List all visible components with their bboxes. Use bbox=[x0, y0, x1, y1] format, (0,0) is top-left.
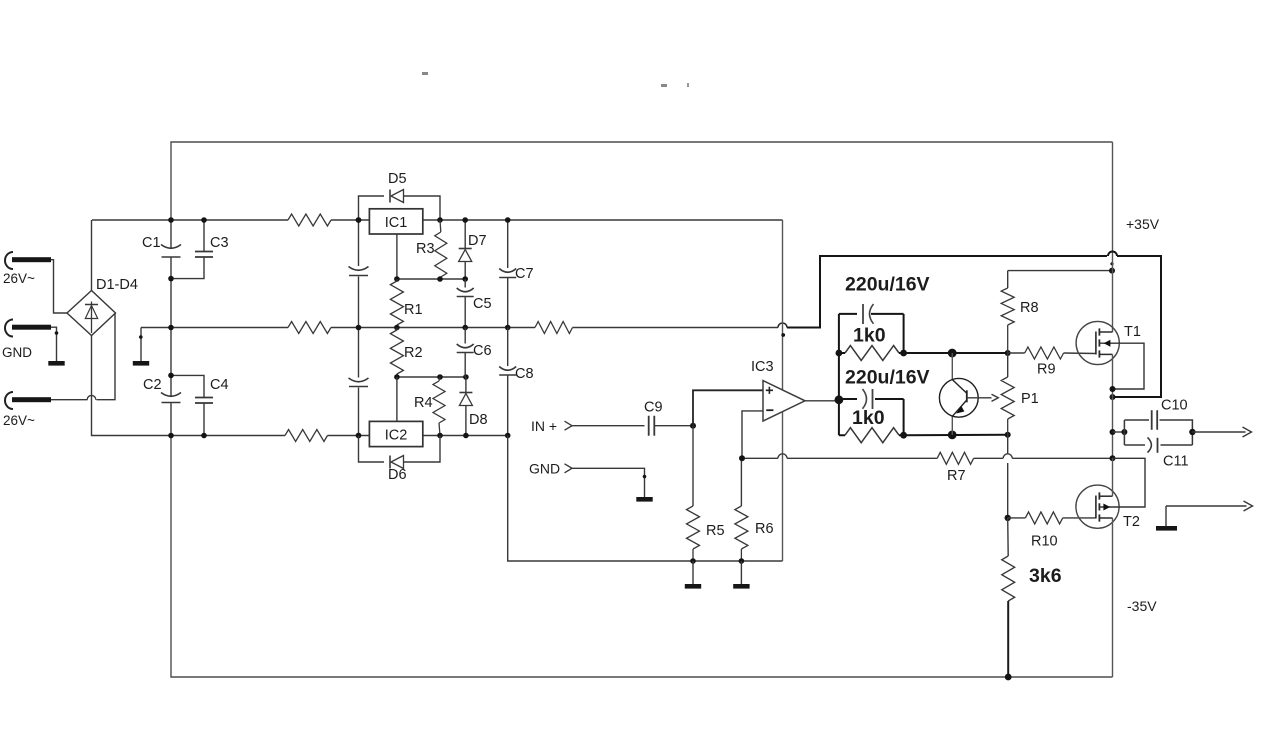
wire R7 line mid bbox=[787, 457, 937, 459]
ground symbol mid rail bbox=[133, 361, 149, 366]
wire IC2 adj line y377 bbox=[397, 376, 466, 378]
capacitor C7 branch bbox=[507, 220, 509, 328]
capacitor C2 bbox=[161, 393, 181, 397]
transistor Q1 emitter arrow bbox=[956, 406, 964, 414]
resistor R4 bbox=[439, 377, 440, 381]
diode D8 bbox=[459, 392, 472, 394]
node adj-R1 bbox=[394, 276, 400, 282]
node D8 bottom bbox=[463, 433, 469, 439]
wire lower branch left vertical bbox=[838, 400, 840, 436]
speck 1 bbox=[422, 72, 428, 75]
resistor R3 bbox=[439, 220, 442, 232]
node adj2-D8 bbox=[463, 374, 469, 380]
potentiometer P1 bbox=[1007, 353, 1009, 377]
svg-text:C7: C7 bbox=[515, 266, 534, 282]
node R5 bottom bbox=[690, 558, 696, 564]
svg-text:GND: GND bbox=[529, 461, 560, 477]
node IC3 output junction bbox=[835, 395, 844, 404]
transistor Q1 collector diagonal bbox=[953, 380, 967, 394]
resistor 1k0 upper bbox=[845, 346, 899, 361]
resistor 3k6 bbox=[1007, 518, 1010, 556]
svg-text:GND: GND bbox=[2, 345, 32, 360]
wire speaker return arrow bbox=[1166, 505, 1247, 507]
node C3 top bbox=[201, 217, 207, 223]
wire lower node line bbox=[904, 434, 1008, 436]
resistor series mid rail left bbox=[288, 322, 331, 334]
capacitor C4 branch bbox=[171, 375, 204, 435]
node bypass bottom bbox=[356, 433, 362, 439]
svg-text:+35V: +35V bbox=[1126, 216, 1160, 232]
svg-text:220u/16V: 220u/16V bbox=[845, 274, 930, 296]
node R6 bottom bbox=[739, 558, 745, 564]
svg-text:C6: C6 bbox=[473, 343, 492, 359]
wire upper node line bbox=[904, 352, 1008, 354]
svg-text:3k6: 3k6 bbox=[1029, 565, 1062, 587]
connector J3 26V~ bottom bbox=[5, 392, 13, 409]
svg-text:P1: P1 bbox=[1021, 391, 1039, 407]
mosfet T1 body wire bbox=[1099, 343, 1144, 389]
mosfet T1 source bbox=[1099, 353, 1112, 355]
node C7 top bbox=[505, 217, 511, 223]
node Q1 emitter junction bbox=[948, 431, 957, 440]
node IC2 input bbox=[356, 433, 362, 439]
mosfet T1 body arrow bbox=[1104, 340, 1111, 347]
svg-text:220u/16V: 220u/16V bbox=[845, 367, 930, 389]
diode D5 bypass loop bbox=[359, 196, 441, 220]
node C2-C4 branch bbox=[168, 373, 174, 379]
capacitor C10 bbox=[1124, 420, 1192, 445]
diode D7 branch bbox=[464, 220, 466, 279]
node C8 bottom bbox=[505, 433, 511, 439]
capacitor C1 bbox=[161, 245, 181, 249]
connector J2 GND bbox=[5, 320, 13, 337]
node C4 bottom bbox=[201, 433, 207, 439]
resistor series mid rail right bbox=[535, 322, 573, 334]
node R8 top bbox=[1109, 268, 1115, 274]
resistor R5 bbox=[692, 426, 694, 506]
svg-text:R7: R7 bbox=[947, 468, 966, 484]
svg-text:D5: D5 bbox=[388, 171, 407, 187]
svg-text:C8: C8 bbox=[515, 366, 534, 382]
node P1 bottom bbox=[1005, 432, 1011, 438]
svg-text:R3: R3 bbox=[416, 241, 435, 257]
capacitor bypass lower bbox=[349, 378, 369, 382]
hop R7 over supply line bbox=[778, 454, 787, 459]
mosfet T2 source bbox=[1099, 517, 1112, 519]
svg-text:C5: C5 bbox=[473, 296, 492, 312]
wire T2 source to -35V bbox=[1112, 518, 1114, 677]
mosfet T1 circle bbox=[1076, 321, 1119, 364]
label IC3 plus input bbox=[766, 387, 773, 394]
hop T1 loop over rail bbox=[1108, 252, 1117, 257]
resistor R2 bbox=[390, 330, 403, 374]
capacitor 220u/16V lower bbox=[839, 398, 857, 400]
wire IC3 negative return bbox=[508, 436, 783, 562]
wire R7 line right bbox=[974, 457, 1004, 459]
tick above R8 node bbox=[1110, 262, 1113, 265]
diode D8 branch bbox=[465, 377, 467, 436]
wire mid rail to T1 loop corner bbox=[787, 256, 1107, 328]
connector J1 26V~ top bbox=[5, 252, 13, 269]
op-amp IC3 triangle bbox=[763, 381, 805, 421]
node R2-adj2 bbox=[394, 374, 400, 380]
wire IC1 adj line y279 bbox=[397, 278, 465, 280]
mosfet T2 body arrow bbox=[1103, 504, 1110, 511]
svg-text:IC1: IC1 bbox=[385, 215, 408, 231]
diode D5 bbox=[389, 190, 391, 203]
hop R7 over P1 column bbox=[1003, 454, 1012, 459]
mosfet T1 gate plate bbox=[1095, 332, 1097, 355]
wire T1 source to output bbox=[1112, 354, 1114, 458]
node C1-C2 mid bbox=[168, 325, 174, 331]
resistor series bottom rail bbox=[285, 430, 328, 442]
wire output arrow bbox=[1192, 431, 1245, 433]
capacitor C5 branch bbox=[464, 279, 466, 328]
svg-text:C10: C10 bbox=[1161, 398, 1188, 414]
wire Q1 collector bbox=[951, 353, 953, 380]
wire C1 column bbox=[170, 220, 172, 436]
node bypass mid bbox=[356, 325, 362, 331]
node adj-D7 bbox=[462, 276, 468, 282]
wire Q1 emitter bbox=[951, 416, 953, 435]
label IC3 minus input bbox=[766, 409, 773, 411]
wire IN to C9 bbox=[572, 425, 645, 427]
capacitor C8 branch bbox=[507, 328, 509, 436]
capacitor C11 bbox=[1124, 444, 1192, 446]
mosfet T2 drain bbox=[1099, 495, 1112, 497]
svg-text:D1-D4: D1-D4 bbox=[96, 277, 138, 293]
svg-text:1k0: 1k0 bbox=[852, 407, 885, 429]
wire +35V rail upper bbox=[1112, 142, 1114, 332]
wire Q1 base to P1 wiper bbox=[967, 397, 992, 399]
wire R7 line left bbox=[742, 457, 778, 459]
resistor series top rail bbox=[288, 214, 331, 226]
node D7 top bbox=[462, 217, 468, 223]
node C2 bottom bbox=[168, 433, 174, 439]
svg-text:IN +: IN + bbox=[531, 418, 557, 434]
wire P1 to R10 junction bbox=[1007, 435, 1009, 518]
speck 2 bbox=[661, 84, 667, 87]
svg-text:R9: R9 bbox=[1037, 362, 1056, 378]
svg-text:D7: D7 bbox=[468, 233, 487, 249]
ground stub R5 bbox=[692, 561, 694, 584]
svg-text:D6: D6 bbox=[388, 467, 407, 483]
mosfet T2 body wire bbox=[1099, 458, 1145, 507]
node adj-R3 bbox=[437, 276, 443, 282]
svg-text:T2: T2 bbox=[1123, 514, 1140, 530]
wire J1 to bridge bbox=[51, 260, 67, 313]
resistor R7 bbox=[937, 452, 973, 464]
svg-text:D8: D8 bbox=[469, 412, 488, 428]
svg-text:T1: T1 bbox=[1124, 324, 1141, 340]
transistor Q1 emitter diagonal bbox=[953, 400, 967, 416]
wire inverting input bbox=[742, 411, 763, 458]
wire IC3 supply vertical bbox=[782, 220, 784, 561]
bridge rectifier D1-D4 diamond bbox=[67, 291, 116, 336]
node Q1 collector bbox=[948, 349, 957, 358]
svg-text:R1: R1 bbox=[404, 302, 423, 318]
capacitor bypass upper bbox=[349, 267, 369, 271]
wire C9 to node bbox=[654, 425, 693, 427]
wire IC3 output bbox=[805, 400, 839, 402]
node C1 top bbox=[168, 217, 174, 223]
wire upper branch left vertical bbox=[838, 314, 840, 400]
svg-text:C3: C3 bbox=[210, 235, 229, 251]
mosfet T1 drain bbox=[1099, 331, 1112, 333]
ground stub R6 bbox=[740, 561, 742, 584]
capacitor C9 bbox=[649, 416, 655, 436]
capacitor C10 C11 loop wire bbox=[1113, 431, 1125, 433]
ground symbol input bbox=[636, 497, 652, 502]
svg-text:C9: C9 bbox=[644, 400, 663, 416]
resistor R6 bbox=[740, 458, 742, 506]
svg-text:R5: R5 bbox=[706, 523, 725, 539]
ground stub speaker return bbox=[1165, 506, 1167, 526]
regulator IC2 box bbox=[369, 421, 422, 446]
node on mid rail ground stub bbox=[139, 335, 143, 339]
node IN bbox=[690, 423, 696, 429]
node IC2 output bbox=[437, 433, 443, 439]
node C7 bottom bbox=[505, 325, 511, 331]
node T1 loop bbox=[1110, 394, 1116, 400]
wire lower branch right vertical bbox=[903, 399, 905, 435]
node adj2-R4 bbox=[437, 374, 443, 380]
wire to noninverting input bbox=[693, 390, 763, 425]
capacitor C3 branch bbox=[171, 220, 204, 279]
wire J2 to ground bbox=[51, 327, 57, 361]
diode D6 bbox=[389, 456, 391, 469]
svg-text:C4: C4 bbox=[210, 377, 229, 393]
node on GND drop bbox=[55, 331, 59, 335]
wire J3 to bridge right corner bbox=[51, 399, 88, 401]
wire T2 drain to output node bbox=[1112, 458, 1114, 496]
node on IC3 supply line bbox=[781, 333, 785, 337]
node on GND stub bbox=[643, 475, 647, 479]
wire bridge plus output up bbox=[91, 220, 93, 291]
node 3k6 bottom bbox=[1005, 674, 1012, 681]
ground stub mid rail bbox=[140, 328, 142, 362]
svg-text:R10: R10 bbox=[1031, 534, 1058, 550]
node 1k0 upper right bbox=[900, 350, 907, 357]
connector IN+ bbox=[565, 421, 573, 430]
node R6-R7 feedback bbox=[739, 455, 745, 461]
wire bridge minus output down and right bbox=[92, 336, 172, 436]
resistor R9 bbox=[1025, 347, 1064, 359]
svg-text:1k0: 1k0 bbox=[853, 325, 886, 347]
node output-R7 bbox=[1110, 455, 1116, 461]
wire negative rail y435.5 bbox=[171, 435, 508, 437]
resistor R1 bbox=[390, 281, 403, 325]
resistor R8 bbox=[1008, 270, 1112, 272]
P1 wiper arrowhead bbox=[992, 394, 999, 401]
node R1 bottom bbox=[394, 325, 400, 331]
svg-text:C11: C11 bbox=[1163, 454, 1189, 470]
node C10 right bbox=[1189, 429, 1195, 435]
node output-C10 bbox=[1110, 429, 1116, 435]
outer border frame top/left/bottom bbox=[171, 142, 1113, 677]
svg-text:C1: C1 bbox=[142, 235, 161, 251]
svg-text:IC2: IC2 bbox=[385, 428, 408, 444]
wire bypass column x358.5 bbox=[358, 220, 360, 436]
connector GND in bbox=[565, 464, 573, 473]
transistor Q1 base bar bbox=[966, 390, 968, 402]
wire GND to ground bbox=[572, 468, 645, 497]
capacitor C6 branch bbox=[464, 328, 466, 378]
mosfet T2 gate plate bbox=[1095, 496, 1097, 519]
svg-text:R6: R6 bbox=[755, 521, 774, 537]
wire IC2 adj pin bbox=[396, 377, 398, 421]
node C10 left bbox=[1121, 429, 1127, 435]
diode D6 bypass loop bbox=[359, 436, 441, 463]
node IC1 output bbox=[437, 217, 443, 223]
hop mid rail over IC3 supply line bbox=[778, 323, 787, 328]
wire upper branch right vertical bbox=[903, 314, 905, 353]
node IC1 input bbox=[356, 217, 362, 223]
svg-text:26V~: 26V~ bbox=[3, 413, 35, 428]
svg-text:C2: C2 bbox=[143, 377, 162, 393]
node bypass top bbox=[356, 217, 362, 223]
resistor 1k0 lower bbox=[845, 428, 899, 443]
svg-text:IC3: IC3 bbox=[751, 359, 774, 375]
svg-text:R4: R4 bbox=[414, 395, 433, 411]
node 1k0 upper left bbox=[836, 350, 843, 357]
ground symbol for J2 bbox=[48, 361, 64, 366]
capacitor 220u/16V upper bbox=[839, 313, 857, 315]
transistor Q1 circle bbox=[939, 378, 978, 417]
mosfet T1 channel dashes bbox=[1098, 328, 1100, 357]
node C1-C3 join bbox=[168, 276, 174, 282]
svg-text:R2: R2 bbox=[404, 345, 423, 361]
node T1 source bbox=[1110, 386, 1116, 392]
node P1 top bbox=[1005, 350, 1011, 356]
svg-text:R8: R8 bbox=[1020, 300, 1039, 316]
wire R7 to output rail bbox=[1012, 457, 1112, 459]
node C5 bottom bbox=[462, 325, 468, 331]
mosfet T2 channel dashes bbox=[1098, 492, 1100, 521]
regulator IC1 box bbox=[369, 209, 422, 234]
mosfet T2 circle bbox=[1076, 485, 1119, 528]
bridge internal diode bbox=[91, 302, 93, 334]
svg-text:-35V: -35V bbox=[1127, 598, 1157, 614]
wire T1 source loop outer bbox=[1113, 256, 1162, 397]
node R10 junction bbox=[1005, 515, 1011, 521]
node 1k0 lower right bbox=[900, 432, 907, 439]
wire positive rail y220 bbox=[92, 219, 783, 221]
wire IC1 adj pin bbox=[396, 234, 398, 279]
wire ground mid rail y328 bbox=[141, 327, 778, 329]
diode D7 bbox=[459, 248, 472, 250]
resistor R10 bbox=[1025, 512, 1062, 524]
speck 3 bbox=[687, 83, 689, 87]
svg-text:26V~: 26V~ bbox=[3, 271, 35, 286]
